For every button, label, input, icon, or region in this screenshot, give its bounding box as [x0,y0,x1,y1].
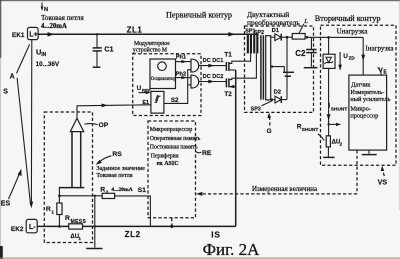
wire Ph1 oscillator output [176,55,192,64]
wire U_IN voltage arrow from L+ down to EK2 [30,40,34,209]
svg-text:Токовая петля: Токовая петля [41,14,84,22]
svg-text:ZD: ZD [349,56,356,61]
gate G2 (lower AND gate) [191,75,199,88]
transformer primary winding SP1 [245,28,255,53]
label Модуляторное устройство M [133,41,170,53]
svg-text:Постоянная память: Постоянная память [150,145,198,151]
RE box internal labels [150,127,201,167]
svg-text:DC DC1: DC DC1 [203,58,224,64]
svg-text:Ph2: Ph2 [176,71,186,77]
comparator S2 box with hysteresis symbol [151,91,179,113]
diode D2 [271,90,287,103]
inductor L filter choke [292,18,308,39]
wire DC1 gate output to T1 [199,58,227,68]
svg-text:4...20mA: 4...20mA [41,23,67,30]
wire ground branch from setpoint node [86,196,102,249]
svg-text:EK1: EK1 [12,32,25,39]
node U_IN label [36,47,60,68]
node V_E label [378,67,388,76]
svg-text:Осциллятор: Осциллятор [151,77,177,82]
svg-text:ZL2: ZL2 [125,230,141,239]
svg-text:IN: IN [41,52,46,58]
wire SP3 centre tap to ground [271,65,294,76]
node A leader line [17,44,30,73]
wire rectifier output rail [305,36,363,39]
svg-text:A: A [10,74,15,81]
wire setpoint line with R2 [59,195,150,227]
svg-text:D1: D1 [272,28,280,34]
svg-text:G: G [267,128,272,135]
modulator device M dashed box [133,54,201,116]
terminal box L+ [28,27,39,39]
svg-text:1: 1 [78,236,81,241]
svg-text:SP2: SP2 [254,30,264,36]
diode D1 [271,28,293,41]
transistor T2 [224,53,256,98]
wire op-amp output to E1 [77,104,151,119]
wire Ph2 oscillator output [176,71,192,79]
label Iнагрузка with arrow [361,37,394,75]
dashed measured value line from sensor to RE [196,150,357,196]
resistor R1 [46,195,62,228]
svg-text:Измеренная величина: Измеренная величина [252,185,318,193]
svg-text:Вторичный контур: Вторичный контур [315,14,381,23]
gate G1 (upper AND gate) [191,59,199,72]
wire S2 output to gates [164,70,191,104]
svg-text:S1: S1 [138,187,147,194]
svg-text:Модуляторное: Модуляторное [134,41,170,47]
terminal box L- [26,219,37,232]
label Двухтактный преобразователь [247,10,300,27]
wire op-amp input sense lines [59,131,85,195]
svg-text:Заданное значение: Заданное значение [96,166,145,172]
svg-text:T2: T2 [224,91,232,98]
capacitor C2 [295,37,317,67]
svg-text:2: 2 [106,190,109,196]
wire transistor source return down to ZL2 [235,70,237,226]
wire measurement tap to amplifier [327,123,341,126]
svg-text:Iнагрузка: Iнагрузка [365,44,394,52]
resistor R2 [100,187,132,199]
svg-text:2: 2 [340,142,343,147]
op-amp OP [70,118,108,131]
wire DC2 gate output to T2 [199,74,227,84]
svg-text:1: 1 [51,209,54,215]
svg-text:IS: IS [211,229,221,239]
svg-text:EK2: EK2 [11,226,24,233]
transformer primary winding SP2 [253,30,264,54]
svg-text:DC DC2: DC DC2 [203,74,224,80]
svg-text:преобразователь: преобразователь [247,18,300,27]
svg-text:ES: ES [1,201,11,208]
node VS label with arrow to box corner [378,166,388,187]
svg-text:OP: OP [99,122,109,129]
svg-text:U: U [137,85,142,92]
svg-text:Датчик: Датчик [351,82,371,89]
label RE with leader [196,150,212,157]
svg-text:ный усилитель: ный усилитель [350,96,390,103]
svg-text:C2: C2 [295,49,306,58]
resistor R_SHUNT [297,123,343,147]
svg-text:ZL1: ZL1 [127,25,143,34]
label Заданное значение / Токовая петля [96,166,145,179]
zener diode box U_ZD [323,36,355,71]
svg-text:S: S [3,88,8,95]
svg-text:R: R [65,215,70,222]
svg-text:устройство М: устройство М [133,46,167,53]
secondary circuit dashed box [321,25,397,165]
transformer core [261,35,264,99]
microprocessor RE dashed box [148,121,196,218]
svg-text:Uнагрузка: Uнагрузка [337,28,369,36]
svg-text:10...36V: 10...36V [36,61,60,68]
wire D2 output up to D1 node [286,36,289,100]
node ES label with curved arrow [1,169,22,208]
svg-text:VS: VS [378,178,388,187]
transistor T1 [224,52,250,71]
svg-text:4...20mA: 4...20mA [111,187,132,193]
capacitor C1 [93,33,114,67]
svg-text:SHUNT: SHUNT [331,107,348,113]
svg-text:SP3: SP3 [251,106,261,112]
svg-text:T1: T1 [224,52,232,59]
svg-text:L-: L- [29,224,36,231]
svg-text:N: N [44,7,48,13]
wire ZL1 top loop conductor [38,32,258,36]
wire zener to shunt with I_SHUNT arrow [327,68,348,135]
svg-text:Микропроцессор: Микропроцессор [150,127,193,133]
svg-text:U: U [343,53,348,60]
svg-text:Ph1: Ph1 [176,55,186,61]
node U_REF input arrow [137,85,151,94]
svg-text:Фиг. 2А: Фиг. 2А [203,240,261,259]
oscillator box [150,59,176,89]
node I_IN current-loop label [41,3,48,14]
regulator RS dashed box [44,112,92,243]
wire RE reference stub to ZL2 [170,218,173,228]
svg-text:RE: RE [202,150,212,157]
sensor / amplifier / microprocessor box [349,75,391,150]
ground below sensor box [362,150,377,155]
svg-text:S2: S2 [171,97,179,104]
resistor R_MESS on ZL2 [65,215,86,241]
svg-text:ек ASIC: ек ASIC [157,161,179,167]
ground below R_SHUNT [323,147,334,158]
push-pull converter dashed box [245,26,314,112]
svg-text:Периферия: Периферия [151,153,179,160]
svg-text:SHUNT: SHUNT [302,127,319,133]
node G label with arrow to converter box [267,113,272,135]
svg-text:R: R [100,187,105,194]
svg-text:C1: C1 [104,45,113,54]
svg-text:D2: D2 [274,90,281,96]
svg-text:Первичный контур: Первичный контур [166,11,232,20]
transformer secondary winding SP3 [251,36,273,113]
svg-text:процессор: процессор [350,112,378,119]
svg-text:L+: L+ [29,32,37,39]
wire ZL2 bottom loop conductor [37,225,236,227]
label RS with leader arrow [96,151,123,165]
svg-text:Оперативная память: Оперативная память [150,136,201,142]
svg-text:R: R [46,206,51,213]
node S leader line [17,78,31,205]
svg-text:Токовая петля: Токовая петля [96,173,132,179]
svg-text:RS: RS [112,151,122,158]
